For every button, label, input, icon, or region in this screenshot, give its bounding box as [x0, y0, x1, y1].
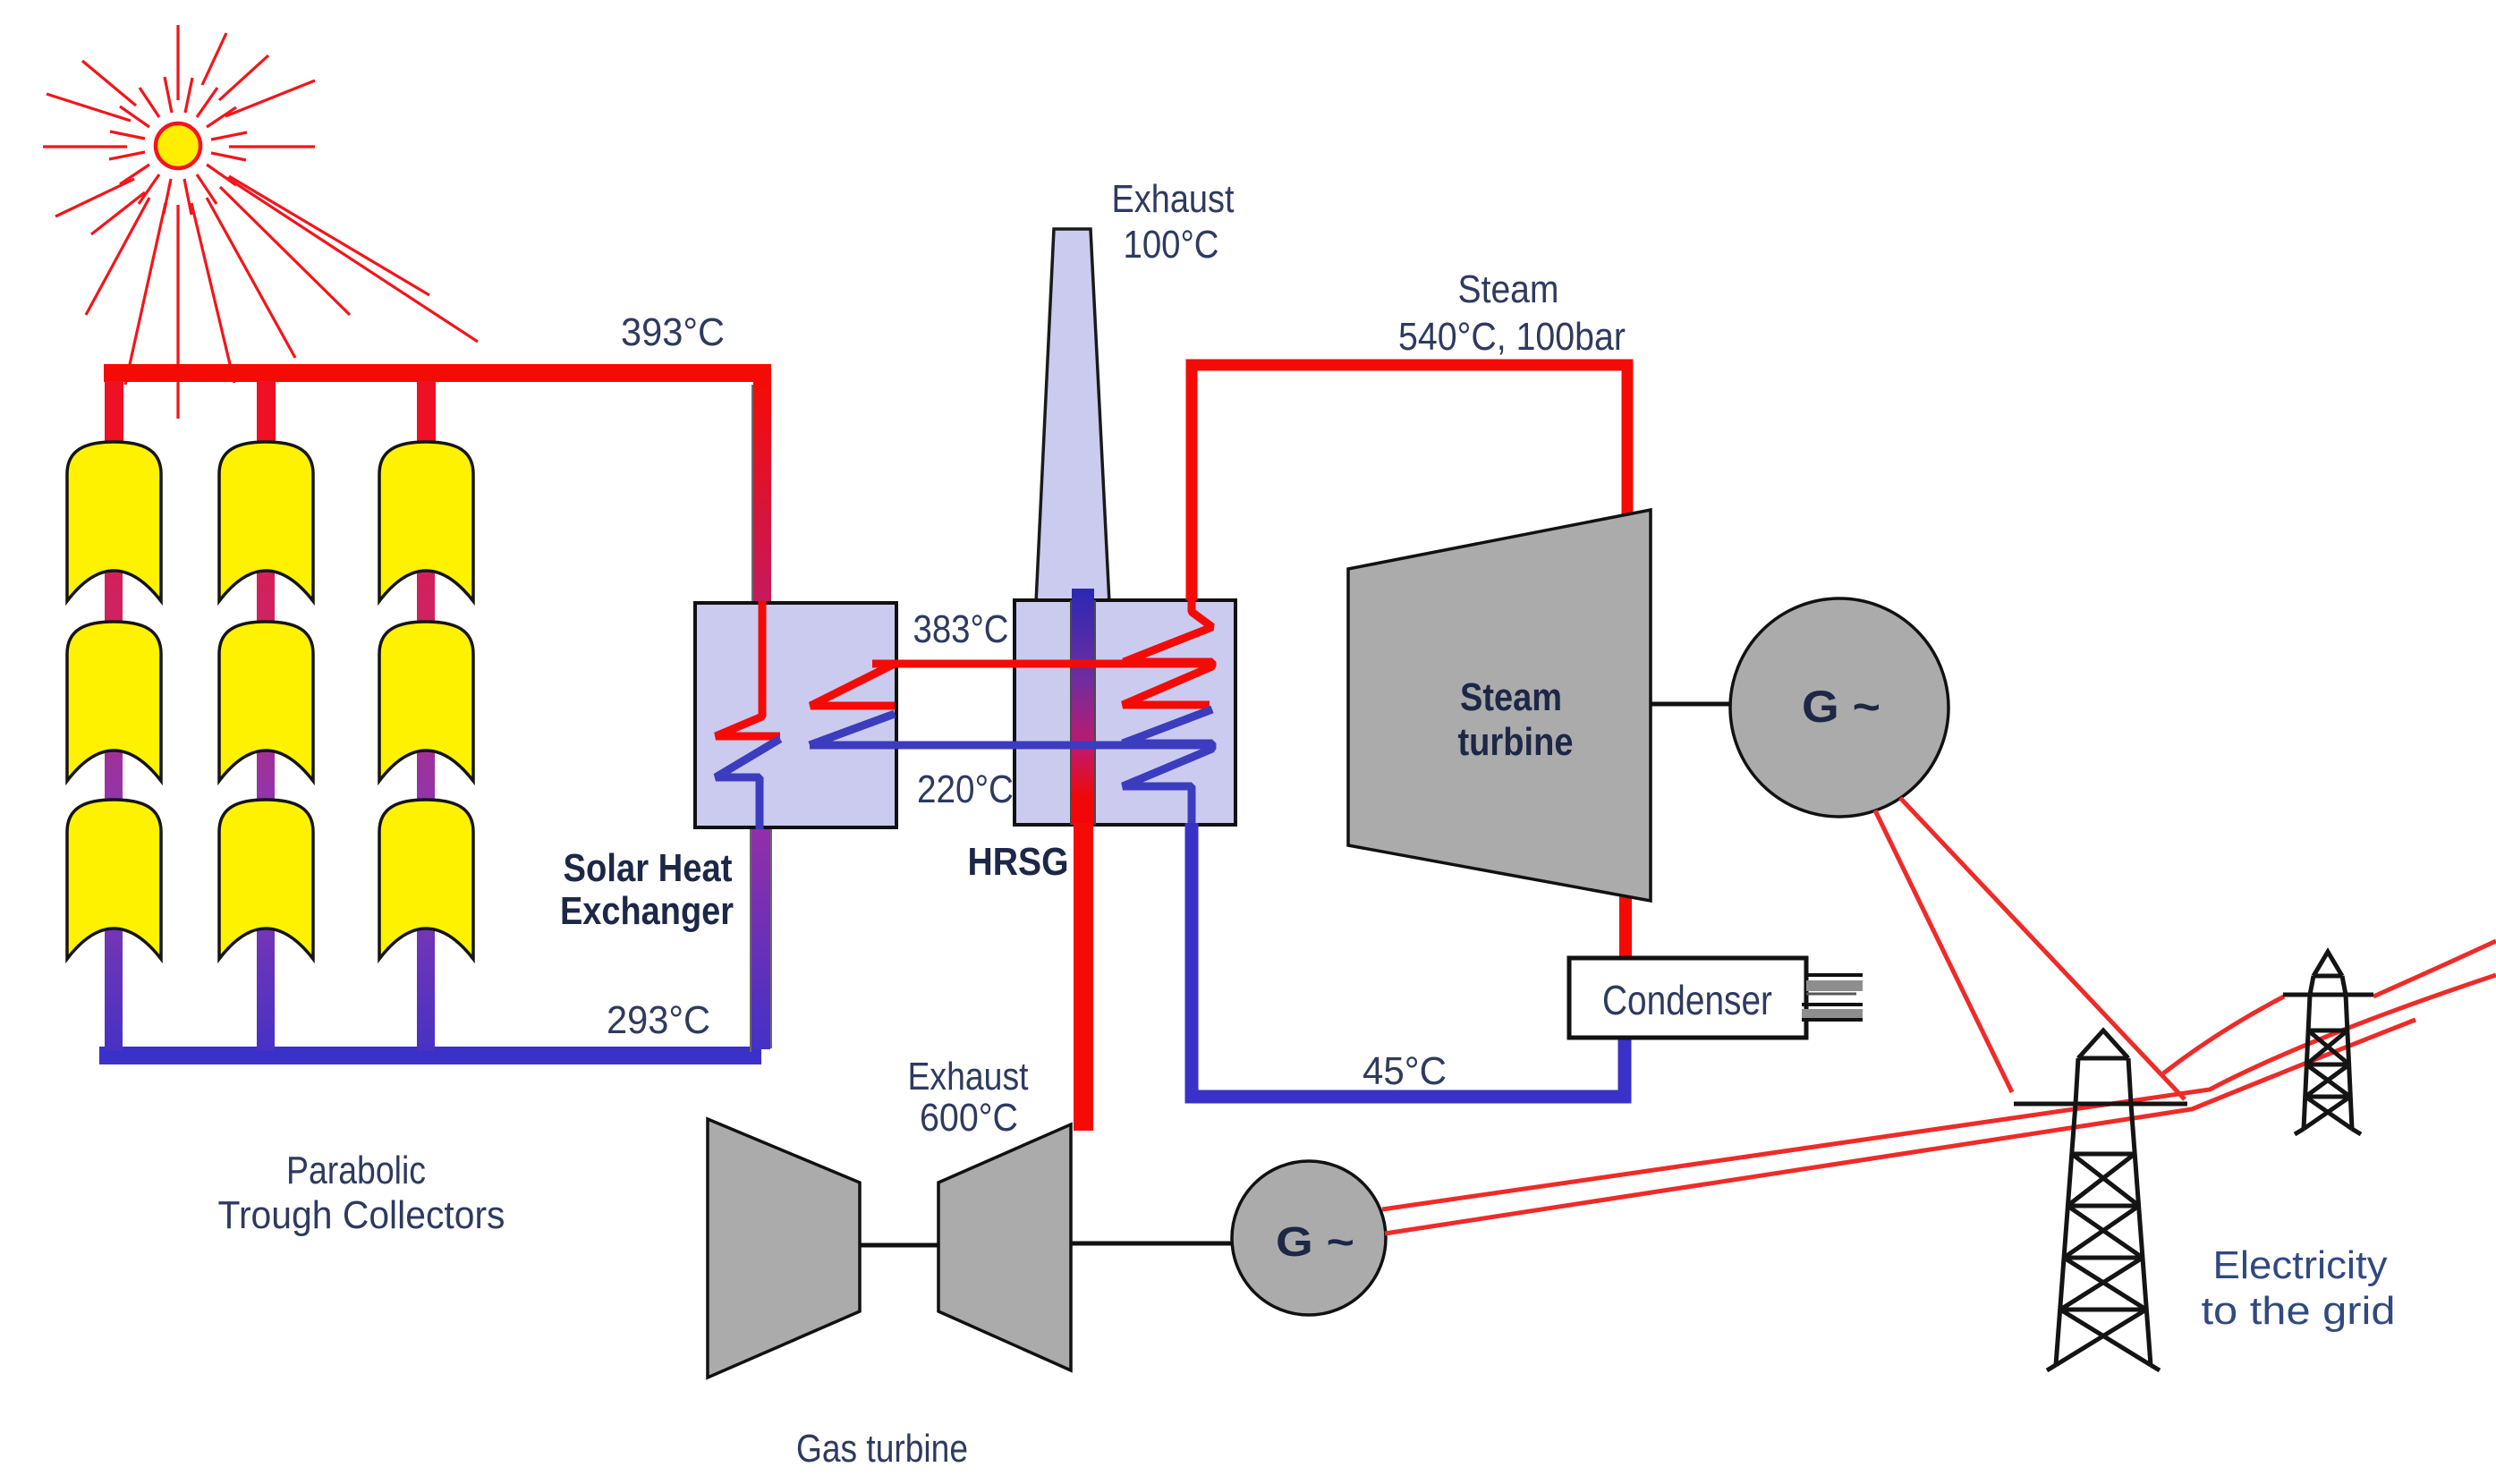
solar heat exchanger box: [695, 603, 896, 827]
condenser box: [1569, 958, 1806, 1038]
gas turbine shaft: [860, 1243, 938, 1248]
steam generator G~: [1730, 598, 1948, 817]
gas turbine expander: [938, 1124, 1071, 1370]
svg-text:100°C: 100°C: [1124, 223, 1219, 267]
svg-text:Exchanger: Exchanger: [560, 889, 734, 933]
collector column 1 downlink (cold): [105, 921, 123, 1051]
cold oil return pipe 293C: [99, 1047, 761, 1064]
condensate pipe 45C back to HRSG: [1192, 823, 1625, 1097]
svg-text:Exhaust: Exhaust: [908, 1055, 1029, 1098]
wire gas generator through pylon to grid: [1382, 975, 2496, 1209]
steam turbine body: [1348, 510, 1651, 901]
gas generator G~: [1232, 1161, 1386, 1315]
gas turbine compressor: [708, 1119, 860, 1378]
condenser cooling water pipe lower: [1802, 1005, 1863, 1020]
condenser cooling water pipe upper: [1806, 975, 1863, 994]
grid wire upper between pylons: [2163, 941, 2496, 1073]
collector column 3 link row1-row2: [417, 564, 435, 631]
HRSG gas duct (cooling exhaust): [1072, 589, 1094, 825]
riser pipe from solar heat exchanger: [751, 827, 770, 1049]
svg-text:393°C: 393°C: [621, 310, 725, 354]
transmission pylon large: [2014, 1030, 2187, 1370]
parabolic trough collector row 1 col 3: [379, 442, 473, 601]
gas turbine exhaust pipe 600C: [1074, 823, 1093, 1131]
svg-text:Gas turbine: Gas turbine: [796, 1427, 968, 1471]
collector column 2 downlink (cold): [257, 921, 275, 1051]
svg-text:to the grid: to the grid: [2202, 1289, 2396, 1333]
steam line 383C from SHE to HRSG: [872, 660, 1212, 668]
parabolic trough collector row 3 col 3: [379, 800, 473, 959]
steam pipe 540C 100bar: [1192, 365, 1627, 600]
svg-text:Steam: Steam: [1458, 267, 1559, 311]
downcomer pipe edge: [751, 385, 753, 603]
water line 220C from HRSG to SHE: [810, 742, 1212, 750]
parabolic trough collector row 1 col 2: [219, 442, 313, 601]
HRSG gas duct edges: [1070, 600, 1072, 825]
svg-text:Steam: Steam: [1460, 675, 1562, 719]
SHE water coil (water in): [810, 714, 895, 745]
steam turbine shaft: [1651, 702, 1732, 707]
parabolic trough collector row 2 col 2: [219, 622, 313, 781]
SHE oil coil (hot side): [716, 601, 780, 736]
gas generator shaft: [1071, 1242, 1234, 1246]
parabolic trough collector row 3 col 2: [219, 800, 313, 959]
wire steam generator to pylon right: [1900, 798, 2185, 1099]
HRSG box: [1015, 600, 1235, 825]
collector column 2 link row2-row3: [257, 742, 275, 809]
collector column 3 link row2-row3: [417, 742, 435, 809]
svg-text:Solar Heat: Solar Heat: [564, 846, 733, 890]
steam turbine exhaust pipe to condenser: [1619, 895, 1632, 962]
svg-text:45°C: 45°C: [1363, 1049, 1447, 1093]
collector column 3 downlink (cold): [417, 921, 435, 1051]
SHE water coil (steam out): [811, 664, 895, 706]
sun rays: [43, 25, 478, 419]
collector column 1 link row2-row3: [105, 742, 123, 809]
collector column 2 riser (hot): [257, 381, 276, 451]
svg-text:Exhaust: Exhaust: [1112, 177, 1235, 221]
wire steam generator to pylon left: [1875, 810, 2012, 1092]
parabolic trough collector row 2 col 3: [379, 622, 473, 781]
collector column 1 link row1-row2: [105, 564, 123, 631]
HRSG exhaust chimney: [1036, 229, 1109, 603]
parabolic trough collector row 2 col 1: [67, 622, 161, 781]
svg-text:Condenser: Condenser: [1602, 977, 1772, 1023]
svg-text:Parabolic: Parabolic: [286, 1149, 426, 1192]
svg-text:Electricity: Electricity: [2213, 1243, 2388, 1287]
svg-text:600°C: 600°C: [920, 1096, 1018, 1140]
parabolic trough collector row 1 col 1: [67, 442, 161, 601]
parabolic trough collector row 3 col 1: [67, 800, 161, 959]
svg-text:Trough Collectors: Trough Collectors: [218, 1193, 505, 1237]
collector column 1 riser (hot): [105, 381, 123, 451]
svg-text:220°C: 220°C: [917, 767, 1014, 811]
svg-text:540°C, 100bar: 540°C, 100bar: [1398, 315, 1626, 359]
transmission pylon small: [2283, 952, 2373, 1134]
downcomer pipe to solar heat exchanger: [753, 382, 771, 603]
HRSG economizer coil (blue): [1123, 709, 1212, 825]
svg-text:293°C: 293°C: [607, 998, 710, 1042]
wire gas generator lower to small pylon: [1385, 1020, 2415, 1234]
riser pipe edges: [750, 827, 751, 1052]
collector column 2 link row1-row2: [257, 564, 275, 631]
svg-text:G ~: G ~: [1802, 682, 1880, 732]
HRSG superheater coil (red): [1123, 600, 1212, 705]
collector column 3 riser (hot): [417, 381, 436, 451]
svg-text:turbine: turbine: [1458, 720, 1574, 764]
svg-text:383°C: 383°C: [913, 607, 1009, 651]
svg-text:G ~: G ~: [1276, 1218, 1354, 1265]
svg-text:HRSG: HRSG: [968, 840, 1069, 884]
SHE oil coil (cold side): [716, 739, 780, 829]
sun disc: [156, 123, 200, 168]
hot oil header pipe 393C: [104, 373, 762, 603]
